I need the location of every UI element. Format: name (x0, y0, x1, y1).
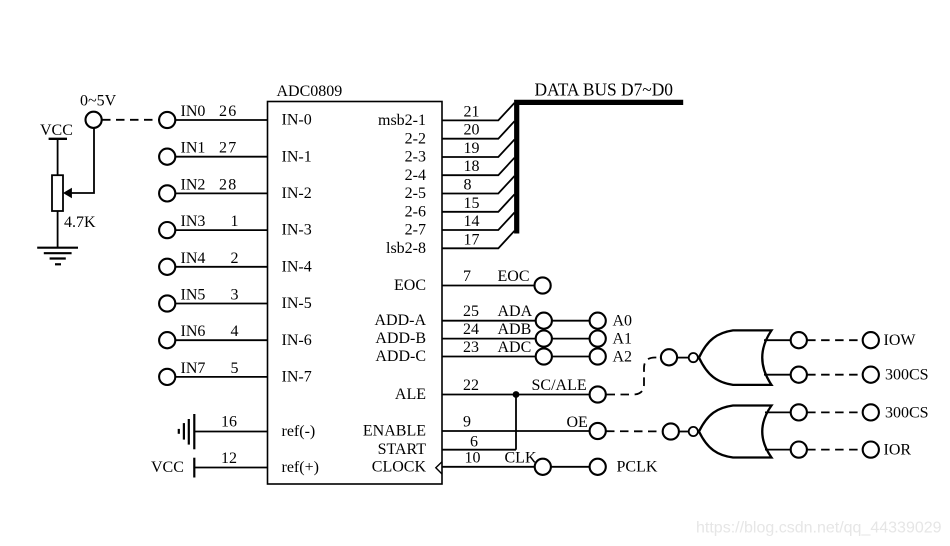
terminal IN5 (159, 295, 175, 311)
svg-text:https://blog.csdn.net/qq_44339: https://blog.csdn.net/qq_44339029 (696, 520, 942, 537)
wire data bit 14 (442, 213, 515, 231)
terminal IN6 (159, 332, 175, 348)
wire ALE to START (515, 395, 517, 450)
svg-text:2: 2 (231, 250, 239, 267)
VCC power rail (49, 138, 67, 140)
terminal 300CS (lower) (863, 404, 879, 420)
svg-text:IN-0: IN-0 (282, 112, 312, 129)
wire ADD-A (442, 320, 536, 322)
svg-text:24: 24 (463, 321, 479, 338)
svg-text:1: 1 (231, 213, 239, 230)
svg-text:17: 17 (464, 231, 480, 248)
svg-text:2-6: 2-6 (405, 203, 426, 220)
U3 input stub upper (765, 411, 791, 413)
potentiometer R1 body (52, 175, 63, 211)
svg-text:15: 15 (464, 195, 480, 212)
OR gate U2 (mirrored) (699, 330, 772, 385)
svg-text:16: 16 (221, 414, 237, 431)
svg-text:START: START (378, 441, 427, 458)
terminal gate U2 output (661, 349, 677, 365)
terminal SC/ALE (590, 386, 606, 402)
signal-ground symbol at ref(-) (179, 414, 195, 449)
wire ADA to A0 (552, 320, 590, 322)
svg-text:ref(+): ref(+) (282, 459, 319, 476)
svg-text:A0: A0 (613, 313, 633, 330)
potentiometer wiper arrow (63, 188, 72, 198)
terminal A1 (590, 331, 606, 347)
terminal U2 input lower (791, 367, 807, 383)
svg-text:6: 6 (470, 434, 478, 451)
wire potentiometer to ground (57, 211, 59, 248)
terminal ADA (536, 313, 552, 329)
svg-text:10: 10 (465, 449, 481, 466)
wire IN7 (176, 376, 268, 378)
wire CLK to PCLK (551, 466, 590, 468)
dashed wire to 300CS (upper) (807, 374, 862, 376)
svg-text:4: 4 (231, 323, 239, 340)
svg-text:19: 19 (464, 140, 480, 157)
wire START (442, 449, 516, 451)
svg-text:21: 21 (464, 103, 480, 120)
dashed wire to IOR (807, 449, 862, 451)
svg-text:A2: A2 (613, 348, 633, 365)
wire ref(+) (194, 467, 267, 469)
wire data bit 17 (442, 231, 515, 249)
terminal U3 input lower (791, 442, 807, 458)
wire ADC to A2 (552, 356, 590, 358)
terminal A0 (590, 313, 606, 329)
svg-text:IN4: IN4 (181, 250, 206, 267)
U3 input stub lower (765, 449, 791, 451)
svg-text:CLK: CLK (505, 449, 537, 466)
svg-text:23: 23 (463, 339, 479, 356)
wire wiper to 0~5V terminal (72, 128, 95, 193)
clock input chevron (436, 462, 442, 474)
terminal IN3 (159, 222, 175, 238)
wire ALE (442, 394, 590, 396)
gate U2 negation bubble (689, 353, 698, 362)
terminal CLK (535, 459, 551, 475)
svg-text:ADB: ADB (498, 321, 532, 338)
terminal IOW (863, 332, 879, 348)
svg-text:ADC0809: ADC0809 (277, 83, 343, 100)
wire ADB to A1 (552, 338, 590, 340)
svg-text:2-2: 2-2 (405, 130, 426, 147)
svg-text:3: 3 (231, 287, 239, 304)
data bus (517, 102, 684, 233)
svg-text:300CS: 300CS (885, 404, 929, 421)
svg-text:IN5: IN5 (181, 287, 206, 304)
svg-text:OE: OE (567, 414, 588, 431)
svg-text:IN-5: IN-5 (282, 295, 312, 312)
terminal IN4 (159, 259, 175, 275)
svg-text:2-4: 2-4 (405, 167, 426, 184)
wire data bit 18 (442, 158, 515, 176)
svg-text:SC/ALE: SC/ALE (532, 377, 587, 394)
svg-text:EOC: EOC (394, 277, 426, 294)
dashed wire to IOW (807, 339, 862, 341)
svg-text:IN0: IN0 (181, 103, 206, 120)
wire to U3 bubble (679, 431, 689, 433)
wire IN6 (176, 339, 268, 341)
svg-text:2-7: 2-7 (405, 222, 426, 239)
svg-text:2-3: 2-3 (405, 149, 426, 166)
svg-text:IN-1: IN-1 (282, 148, 312, 165)
svg-text:PCLK: PCLK (617, 459, 658, 476)
U2 input stub upper (764, 339, 791, 341)
terminal IOR (863, 442, 879, 458)
svg-text:IOW: IOW (884, 332, 917, 349)
svg-text:IN-3: IN-3 (282, 222, 312, 239)
wire data bit 20 (442, 121, 515, 139)
svg-text:25: 25 (463, 303, 479, 320)
svg-text:IN6: IN6 (181, 323, 206, 340)
terminal EOC (535, 277, 551, 293)
svg-text:5: 5 (231, 360, 239, 377)
svg-text:2-5: 2-5 (405, 185, 426, 202)
terminal IN0 (159, 112, 175, 128)
ground (37, 248, 78, 265)
wire IN5 (176, 303, 268, 305)
svg-text:8: 8 (464, 177, 472, 194)
wire data bit 8 (442, 176, 515, 194)
wire IN3 (176, 229, 268, 231)
svg-text:IN1: IN1 (181, 140, 206, 157)
terminal A2 (590, 348, 606, 364)
svg-text:VCC: VCC (151, 459, 184, 476)
terminal IN7 (159, 369, 175, 385)
svg-text:EOC: EOC (498, 268, 530, 285)
svg-text:22: 22 (463, 377, 479, 394)
svg-text:ADD-B: ADD-B (375, 330, 426, 347)
wire to U2 bubble (677, 357, 689, 359)
wire data bit 15 (442, 194, 515, 212)
dashed wire SC/ALE to gate U2 output (607, 358, 661, 395)
wire ADD-C (442, 356, 536, 358)
terminal IN2 (159, 185, 175, 201)
svg-text:18: 18 (464, 158, 480, 175)
svg-text:ALE: ALE (395, 386, 426, 403)
IC U1 ADC0809 body (268, 102, 443, 485)
terminal U3 input upper (791, 404, 807, 420)
terminal OE (590, 423, 606, 439)
svg-text:ADD-A: ADD-A (374, 312, 426, 329)
wire ADD-B (442, 338, 536, 340)
wire EOC (442, 285, 534, 287)
wire data bit 21 (442, 103, 515, 121)
svg-text:ADC: ADC (498, 339, 532, 356)
terminal ADB (536, 331, 552, 347)
svg-text:26: 26 (219, 103, 237, 120)
terminal IN1 (159, 149, 175, 165)
wire IN2 (176, 192, 268, 194)
svg-text:12: 12 (221, 450, 237, 467)
svg-text:IN-4: IN-4 (282, 258, 312, 275)
svg-text:IOR: IOR (884, 442, 912, 459)
svg-text:IN2: IN2 (181, 176, 206, 193)
svg-text:IN7: IN7 (181, 360, 206, 377)
svg-text:VCC: VCC (40, 122, 73, 139)
svg-text:DATA BUS D7~D0: DATA BUS D7~D0 (535, 80, 674, 100)
wire data bit 19 (442, 140, 515, 158)
wire VCC rail to potentiometer (57, 139, 59, 175)
svg-text:ADD-C: ADD-C (375, 348, 426, 365)
svg-text:ADA: ADA (498, 303, 533, 320)
svg-text:IN-2: IN-2 (282, 185, 312, 202)
wire ref(-) (194, 431, 267, 433)
terminal ADC (536, 348, 552, 364)
OR gate U3 (mirrored) (699, 406, 772, 458)
gate U3 negation bubble (689, 427, 698, 436)
svg-text:ref(-): ref(-) (282, 423, 316, 440)
wire ENABLE (442, 430, 590, 432)
terminal gate U3 output (663, 423, 679, 439)
terminal 300CS (upper) (863, 367, 879, 383)
svg-text:CLOCK: CLOCK (372, 458, 427, 475)
svg-text:20: 20 (464, 122, 480, 139)
terminal U2 input upper (791, 332, 807, 348)
svg-text:msb2-1: msb2-1 (378, 112, 426, 129)
U2 input stub lower (764, 374, 791, 376)
VCC rail bar at ref(+) (193, 458, 195, 478)
svg-text:4.7K: 4.7K (64, 214, 96, 231)
svg-text:A1: A1 (613, 330, 633, 347)
svg-text:27: 27 (219, 140, 237, 157)
svg-text:14: 14 (464, 213, 480, 230)
svg-text:IN-7: IN-7 (282, 369, 312, 386)
svg-text:9: 9 (463, 414, 471, 431)
wire CLOCK (442, 466, 535, 468)
svg-text:IN3: IN3 (181, 213, 206, 230)
svg-text:7: 7 (463, 268, 471, 285)
wire IN0 (176, 119, 268, 121)
svg-text:IN-6: IN-6 (282, 332, 312, 349)
dashed wire OE to gate U3 output (606, 430, 663, 432)
svg-text:lsb2-8: lsb2-8 (386, 240, 426, 257)
wire IN4 (176, 266, 268, 268)
terminal PCLK (590, 459, 606, 475)
wire IN1 (176, 156, 268, 158)
svg-text:ENABLE: ENABLE (363, 423, 426, 440)
dashed wire 0~5V to IN0 (102, 119, 159, 121)
dashed wire to 300CS (lower) (807, 411, 862, 413)
junction ALE/START (513, 391, 520, 398)
svg-text:0~5V: 0~5V (80, 93, 117, 110)
terminal 0~5V (86, 112, 102, 128)
svg-text:28: 28 (219, 176, 237, 193)
svg-text:300CS: 300CS (885, 367, 929, 384)
